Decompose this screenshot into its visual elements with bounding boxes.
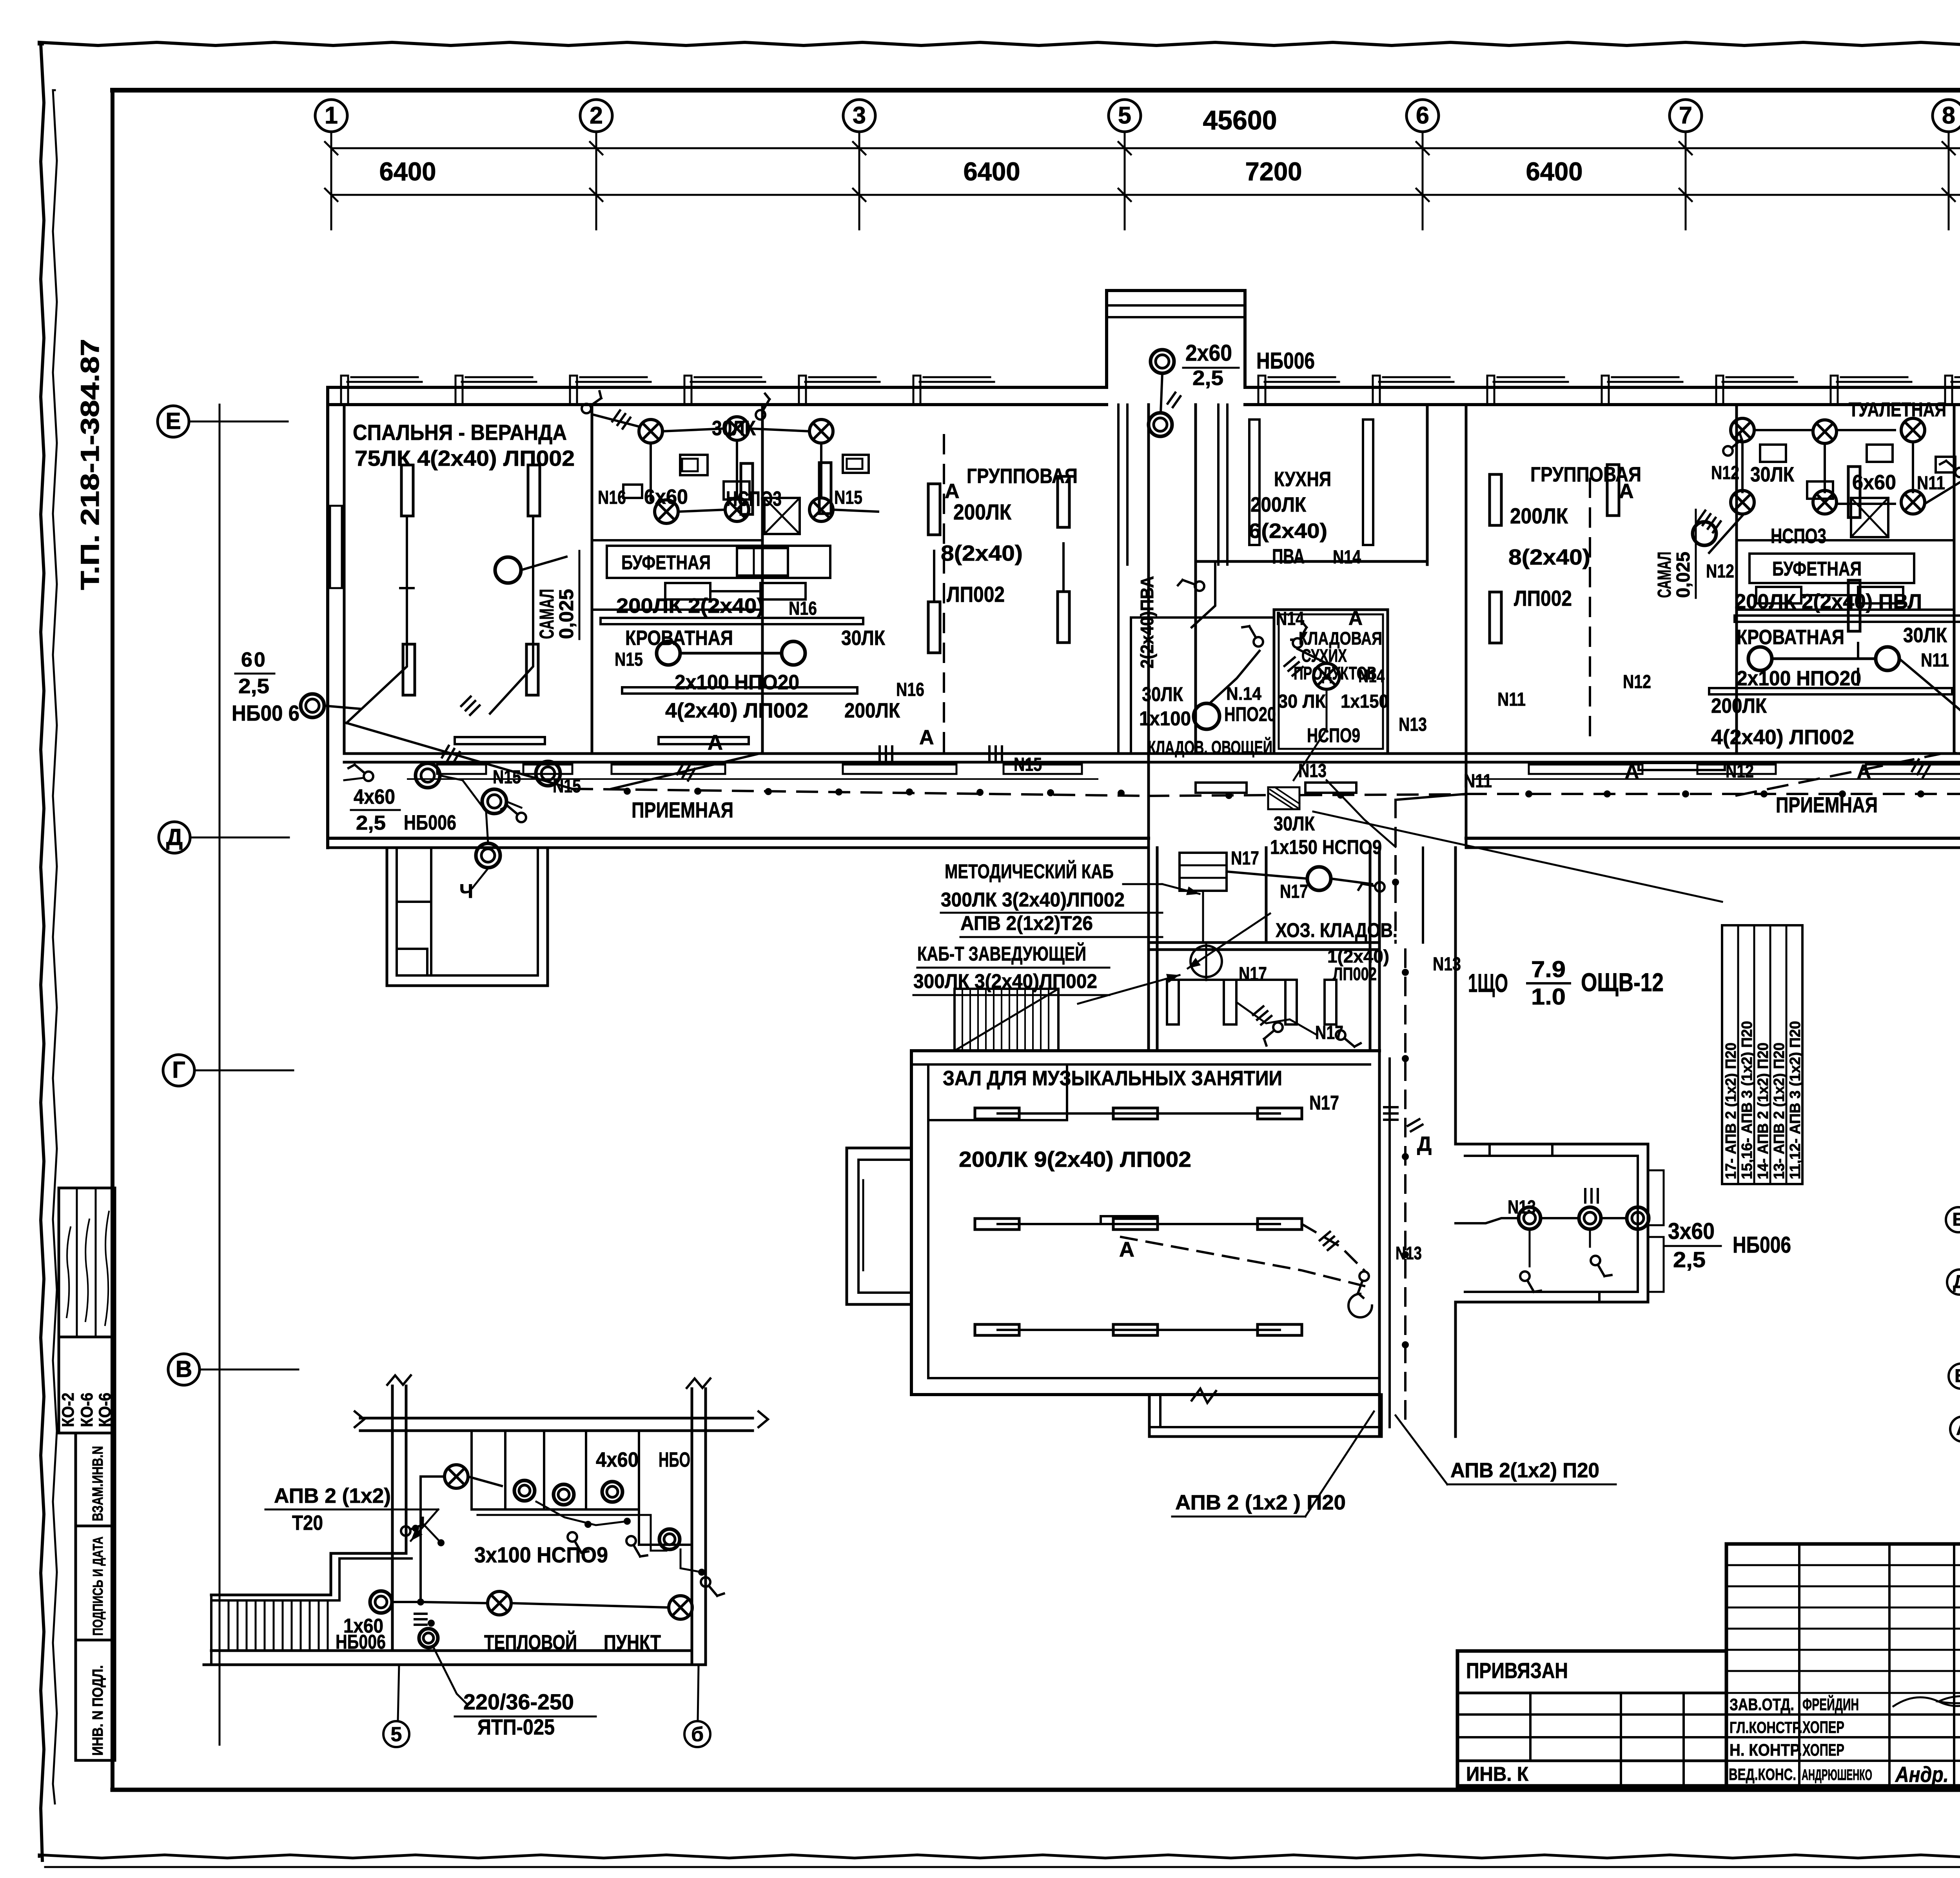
- svg-text:30ЛК: 30ЛК: [1903, 624, 1947, 647]
- svg-text:Е: Е: [1952, 1209, 1960, 1230]
- svg-text:N16: N16: [598, 487, 626, 508]
- heat point lamps: [445, 1465, 468, 1488]
- svg-text:А: А: [1119, 1238, 1134, 1261]
- break mark on hall bottom wall: [1192, 1389, 1216, 1403]
- stem room symbols: [1180, 853, 1227, 891]
- svg-text:НБ006: НБ006: [404, 811, 456, 834]
- svg-text:30ЛК: 30ЛК: [841, 627, 886, 650]
- svg-text:СПАЛЬНЯ - ВЕРАНДА: СПАЛЬНЯ - ВЕРАНДА: [353, 420, 567, 445]
- svg-text:БУФЕТНАЯ: БУФЕТНАЯ: [621, 551, 711, 574]
- svg-text:2,5: 2,5: [1192, 367, 1223, 390]
- svg-text:30ЛК: 30ЛК: [1142, 683, 1183, 705]
- music hall porch: [1149, 1395, 1381, 1437]
- svg-text:2,5: 2,5: [1673, 1247, 1706, 1272]
- svg-text:Е: Е: [165, 408, 181, 434]
- svg-text:N13: N13: [1396, 1243, 1422, 1263]
- svg-text:15,16- АПВ 3 (1х2) П20: 15,16- АПВ 3 (1х2) П20: [1739, 1021, 1755, 1179]
- svg-text:ПРИВЯЗАН: ПРИВЯЗАН: [1466, 1658, 1568, 1683]
- svg-text:N15: N15: [834, 487, 862, 508]
- lamps left toilet cluster: [639, 420, 662, 443]
- svg-text:30 ЛК: 30 ЛК: [1278, 691, 1326, 712]
- music hall walls: [911, 1049, 1379, 1052]
- svg-text:N17: N17: [1231, 848, 1259, 869]
- svg-text:Андр.: Андр.: [1895, 1762, 1949, 1787]
- svg-text:220/36-250: 220/36-250: [463, 1689, 574, 1714]
- svg-text:2,5: 2,5: [356, 812, 386, 834]
- svg-text:Н. КОНТР.: Н. КОНТР.: [1730, 1741, 1802, 1760]
- приёмная fixture rows: [437, 765, 486, 774]
- svg-text:ОЩВ-12: ОЩВ-12: [1581, 968, 1664, 997]
- svg-text:1х100: 1х100: [1139, 707, 1191, 730]
- title block: signature grid: [1726, 1544, 1960, 1786]
- dimension lines: [331, 147, 1960, 149]
- svg-text:200ЛК 2(2х40) ПВЛ: 200ЛК 2(2х40) ПВЛ: [1735, 590, 1922, 613]
- svg-text:АНДРЮШЕНКО: АНДРЮШЕНКО: [1802, 1767, 1872, 1784]
- band bottom wall: [328, 837, 1149, 840]
- piano room: [1167, 980, 1179, 1024]
- svg-text:2,5: 2,5: [238, 675, 269, 698]
- svg-text:200ЛК: 200ЛК: [844, 699, 900, 722]
- svg-text:ПРИЕМНАЯ: ПРИЕМНАЯ: [632, 797, 733, 822]
- svg-text:КО-6: КО-6: [96, 1393, 114, 1427]
- svg-text:ВЕД.КОНС.: ВЕД.КОНС.: [1729, 1765, 1796, 1784]
- svg-text:НСПО3: НСПО3: [1771, 525, 1826, 548]
- svg-text:А: А: [1956, 1418, 1960, 1439]
- svg-text:N16: N16: [896, 679, 924, 700]
- svg-text:2х60: 2х60: [1185, 340, 1232, 366]
- partitions: left wing: [591, 405, 593, 754]
- svg-text:N11: N11: [1497, 689, 1526, 710]
- svg-text:1х150: 1х150: [1341, 691, 1388, 712]
- svg-text:4(2х40) ЛП002: 4(2х40) ЛП002: [1711, 726, 1854, 749]
- svg-text:ПОДПИСЬ И ДАТА: ПОДПИСЬ И ДАТА: [90, 1537, 106, 1636]
- heat point cubicles: [504, 1432, 506, 1509]
- svg-text:4(2х40) ЛП002: 4(2х40) ЛП002: [665, 699, 808, 722]
- svg-text:5: 5: [1118, 102, 1131, 129]
- left outer wall: [326, 387, 329, 848]
- svg-text:200ЛК: 200ЛК: [953, 499, 1012, 524]
- svg-text:2: 2: [590, 102, 603, 129]
- svg-text:N11: N11: [1917, 473, 1945, 494]
- svg-text:300ЛК 3(2х40)ЛП002: 300ЛК 3(2х40)ЛП002: [941, 888, 1125, 911]
- svg-text:В: В: [176, 1356, 192, 1382]
- dashed circuit lines in групповая: [943, 435, 945, 753]
- svg-text:КАБ-Т ЗАВЕДУЮЩЕЙ: КАБ-Т ЗАВЕДУЮЩЕЙ: [917, 942, 1086, 965]
- svg-text:30ЛК: 30ЛК: [1274, 812, 1315, 835]
- svg-text:Ч: Ч: [459, 880, 473, 902]
- partitions: right wing: [1735, 405, 1738, 754]
- left wing diagonal feeds to corridor: [612, 753, 761, 789]
- svg-text:4х60: 4х60: [354, 785, 395, 808]
- partitions: kitchen block: [1147, 405, 1150, 1051]
- heat point: top wall: [360, 1417, 753, 1420]
- svg-text:N14: N14: [1276, 608, 1304, 629]
- svg-text:АПВ 2(1х2)Т26: АПВ 2(1х2)Т26: [960, 912, 1093, 934]
- key plan row circles: [1946, 1207, 1960, 1232]
- svg-text:3х100 НСПО9: 3х100 НСПО9: [474, 1542, 608, 1567]
- svg-text:N17: N17: [1280, 881, 1308, 902]
- svg-text:7.9: 7.9: [1531, 957, 1566, 982]
- svg-text:А: А: [1625, 761, 1639, 783]
- outer border: [39, 42, 1960, 45]
- annex walls: [1455, 1144, 1648, 1302]
- svg-text:НБО: НБО: [659, 1448, 690, 1471]
- svg-text:Т.П. 218-1-384.87: Т.П. 218-1-384.87: [75, 339, 104, 590]
- svg-text:АПВ 2(1х2) П20: АПВ 2(1х2) П20: [1450, 1459, 1599, 1482]
- svg-text:ТУАЛЕТНАЯ: ТУАЛЕТНАЯ: [1849, 398, 1946, 421]
- svg-text:ЛП002: ЛП002: [947, 582, 1005, 607]
- svg-text:6400: 6400: [379, 157, 436, 186]
- svg-text:ТЕПЛОВОЙ: ТЕПЛОВОЙ: [484, 1630, 577, 1654]
- svg-text:ГЛ.КОНСТР.: ГЛ.КОНСТР.: [1730, 1718, 1802, 1736]
- svg-text:200ЛК: 200ЛК: [1510, 503, 1568, 528]
- svg-text:45600: 45600: [1203, 105, 1277, 135]
- right toilet wires: [1741, 443, 1744, 492]
- inner frame: [113, 88, 1960, 93]
- svg-text:КЛАДОВ. ОВОЩЕЙ: КЛАДОВ. ОВОЩЕЙ: [1148, 737, 1272, 757]
- heat point axis circles: [398, 1665, 399, 1721]
- svg-text:7200: 7200: [1245, 157, 1302, 186]
- svg-text:ЯТП-025: ЯТП-025: [477, 1715, 555, 1739]
- svg-text:6: 6: [1416, 102, 1429, 129]
- svg-text:N13: N13: [1399, 714, 1427, 735]
- svg-text:8(2х40): 8(2х40): [941, 541, 1023, 565]
- svg-text:1.0: 1.0: [1531, 984, 1566, 1010]
- svg-text:ВЗАМ.ИНВ.N: ВЗАМ.ИНВ.N: [90, 1446, 106, 1521]
- axis 1 long vertical line: [219, 405, 221, 1745]
- left кроватная pendants: [657, 641, 680, 665]
- svg-text:1ЩО: 1ЩО: [1468, 968, 1508, 997]
- svg-text:200ЛК: 200ЛК: [1711, 694, 1767, 717]
- svg-text:НПО20: НПО20: [1224, 703, 1276, 725]
- svg-text:АПВ 2 (1х2): АПВ 2 (1х2): [274, 1484, 391, 1507]
- svg-text:5: 5: [391, 1723, 402, 1746]
- самал left: [495, 557, 521, 583]
- svg-text:300ЛК 3(2х40)ЛП002: 300ЛК 3(2х40)ЛП002: [913, 970, 1097, 992]
- svg-text:14- АПВ 2 (1х2) П20: 14- АПВ 2 (1х2) П20: [1755, 1043, 1771, 1179]
- svg-text:6400: 6400: [964, 157, 1020, 186]
- wires спальня L: [347, 516, 407, 723]
- left porch: [387, 848, 548, 986]
- svg-text:ПУНКТ: ПУНКТ: [604, 1631, 661, 1654]
- svg-text:N14: N14: [1358, 666, 1385, 686]
- svg-text:N12: N12: [1706, 561, 1734, 582]
- svg-text:7: 7: [1679, 102, 1692, 129]
- misc wires left групповая: [933, 551, 935, 602]
- svg-text:2(2х40)ПВА: 2(2х40)ПВА: [1137, 576, 1157, 668]
- svg-text:0,025: 0,025: [555, 589, 577, 639]
- кроватная fixture rows: [601, 618, 863, 624]
- kitchen block wires: [1249, 420, 1259, 545]
- svg-text:А: А: [1619, 480, 1634, 503]
- radiators left wing: [401, 465, 413, 516]
- building block A: top outer wall with windows: [328, 386, 1107, 389]
- svg-text:А: А: [1348, 607, 1363, 629]
- svg-text:МЕТОДИЧЕСКИЙ КАБ: МЕТОДИЧЕСКИЙ КАБ: [945, 860, 1114, 883]
- heat point wires: [394, 1477, 445, 1602]
- svg-text:ЛП002: ЛП002: [1333, 964, 1377, 984]
- svg-text:17- АПВ 2 (1х2) П20: 17- АПВ 2 (1х2) П20: [1723, 1043, 1739, 1179]
- heat point stairs: [219, 1600, 221, 1651]
- svg-text:САМАЛ: САМАЛ: [535, 589, 558, 639]
- svg-text:8(2х40): 8(2х40): [1508, 545, 1590, 569]
- svg-text:Г: Г: [172, 1057, 185, 1083]
- svg-text:2х100 НПО20: 2х100 НПО20: [675, 671, 799, 694]
- svg-text:КО-6: КО-6: [78, 1393, 96, 1427]
- svg-text:N12: N12: [1711, 463, 1739, 483]
- svg-text:N17: N17: [1309, 1092, 1339, 1114]
- svg-text:13- АПВ 2 (1х2) П20: 13- АПВ 2 (1х2) П20: [1771, 1043, 1788, 1179]
- svg-text:0,025: 0,025: [1673, 552, 1694, 598]
- svg-text:N17: N17: [1239, 964, 1267, 984]
- svg-text:1: 1: [325, 102, 338, 129]
- cable list (rotated): [1722, 925, 1802, 1184]
- svg-text:ПРИЕМНАЯ: ПРИЕМНАЯ: [1776, 792, 1878, 817]
- svg-text:4х60: 4х60: [596, 1448, 639, 1471]
- svg-text:НБ006: НБ006: [1256, 348, 1315, 374]
- svg-text:N16: N16: [789, 598, 817, 619]
- svg-text:ЗАЛ ДЛЯ МУЗЫКАЛЬНЫХ ЗАНЯТИИ: ЗАЛ ДЛЯ МУЗЫКАЛЬНЫХ ЗАНЯТИИ: [943, 1067, 1282, 1090]
- svg-text:3х60: 3х60: [1668, 1219, 1715, 1244]
- music hall wire diag: [1302, 1224, 1364, 1270]
- title block: привязан box: [1457, 1651, 1726, 1786]
- annex lamps: [1519, 1207, 1541, 1229]
- svg-text:ЛП002: ЛП002: [1514, 586, 1572, 610]
- row axes circles: [158, 406, 189, 437]
- column axes circles: [315, 100, 347, 132]
- svg-text:БУФЕТНАЯ: БУФЕТНАЯ: [1772, 558, 1862, 580]
- svg-text:КРОВАТНАЯ: КРОВАТНАЯ: [1737, 626, 1844, 649]
- staircase to stem: [955, 989, 1058, 1051]
- svg-text:N15: N15: [615, 649, 643, 670]
- svg-text:N13: N13: [1298, 761, 1327, 781]
- svg-text:Т20: Т20: [292, 1511, 323, 1535]
- svg-text:НБ006: НБ006: [1733, 1232, 1791, 1258]
- svg-text:ИНВ. N ПОДЛ.: ИНВ. N ПОДЛ.: [90, 1665, 106, 1756]
- svg-text:N12: N12: [1623, 672, 1651, 692]
- fixtures rows music hall: [998, 1112, 1280, 1115]
- svg-text:30ЛК: 30ЛК: [1750, 463, 1795, 486]
- svg-text:НБ00 6: НБ00 6: [232, 701, 299, 725]
- svg-text:ЗАВ.ОТД.: ЗАВ.ОТД.: [1730, 1695, 1794, 1714]
- svg-text:N.14: N.14: [1226, 683, 1261, 704]
- svg-text:А: А: [1857, 761, 1871, 783]
- svg-text:КО-2: КО-2: [59, 1393, 78, 1427]
- centre top stair block: [1107, 291, 1245, 387]
- svg-text:11,12- АПВ 3 (1х2) П20: 11,12- АПВ 3 (1х2) П20: [1787, 1021, 1804, 1179]
- svg-text:КУХНЯ: КУХНЯ: [1274, 468, 1331, 491]
- svg-text:N11: N11: [1464, 771, 1492, 792]
- svg-text:Д: Д: [1417, 1133, 1432, 1155]
- svg-text:Д: Д: [1953, 1271, 1960, 1292]
- heat point: axis walls: [391, 1386, 394, 1651]
- right кроватная pendants: [1748, 647, 1772, 670]
- svg-text:САМАЛ: САМАЛ: [1654, 552, 1675, 598]
- svg-text:75ЛК 4(2х40) ЛП002: 75ЛК 4(2х40) ЛП002: [355, 446, 575, 470]
- svg-text:N14: N14: [1333, 547, 1361, 568]
- corridor top wall: [344, 752, 1960, 755]
- svg-text:Д: Д: [166, 824, 183, 850]
- svg-text:ХОПЕР: ХОПЕР: [1802, 1741, 1844, 1760]
- stem vertical trunk: [1394, 800, 1397, 943]
- svg-text:ПВА: ПВА: [1272, 545, 1305, 568]
- svg-text:60: 60: [241, 648, 267, 671]
- svg-text:N15: N15: [1014, 754, 1042, 775]
- bay window left: [847, 1148, 911, 1304]
- svg-text:1х150 НСПО9: 1х150 НСПО9: [1270, 836, 1382, 858]
- svg-text:200ЛК 9(2х40) ЛП002: 200ЛК 9(2х40) ЛП002: [959, 1147, 1191, 1171]
- svg-text:ХОЗ. КЛАДОВ.: ХОЗ. КЛАДОВ.: [1276, 919, 1397, 941]
- NB006 riser circles centre: [1151, 350, 1174, 373]
- svg-text:8: 8: [1942, 102, 1955, 129]
- svg-text:N13: N13: [1433, 954, 1461, 975]
- svg-text:ИНВ. К: ИНВ. К: [1466, 1763, 1529, 1785]
- right toilet lamps: [1731, 418, 1754, 442]
- switches near porches: [348, 765, 373, 781]
- heat point: room & stairs outline: [211, 1553, 406, 1595]
- svg-text:НСПО9: НСПО9: [1307, 724, 1360, 746]
- corridor trunk dashed right part: [1466, 793, 1960, 795]
- svg-text:ФРЕЙДИН: ФРЕЙДИН: [1802, 1695, 1859, 1714]
- svg-text:3: 3: [853, 102, 866, 129]
- приёмная centre lamps/wires: [416, 763, 440, 788]
- corridor centre fixtures & junction: [1196, 783, 1247, 793]
- svg-text:НБ006: НБ006: [336, 1631, 386, 1653]
- svg-text:N12: N12: [1726, 761, 1754, 782]
- svg-text:б: б: [691, 1723, 704, 1746]
- svg-text:200ЛК 2(2х40): 200ЛК 2(2х40): [616, 594, 764, 618]
- svg-text:ХОПЕР: ХОПЕР: [1802, 1718, 1844, 1737]
- svg-text:N11: N11: [1921, 650, 1949, 671]
- svg-text:6400: 6400: [1526, 157, 1583, 186]
- svg-text:А: А: [919, 726, 934, 749]
- svg-text:А: А: [708, 731, 723, 754]
- margin stamp boxes: [59, 1188, 115, 1337]
- stem walls: [1265, 848, 1268, 943]
- самал right: [1693, 522, 1716, 545]
- svg-text:Б: Б: [1955, 1365, 1960, 1386]
